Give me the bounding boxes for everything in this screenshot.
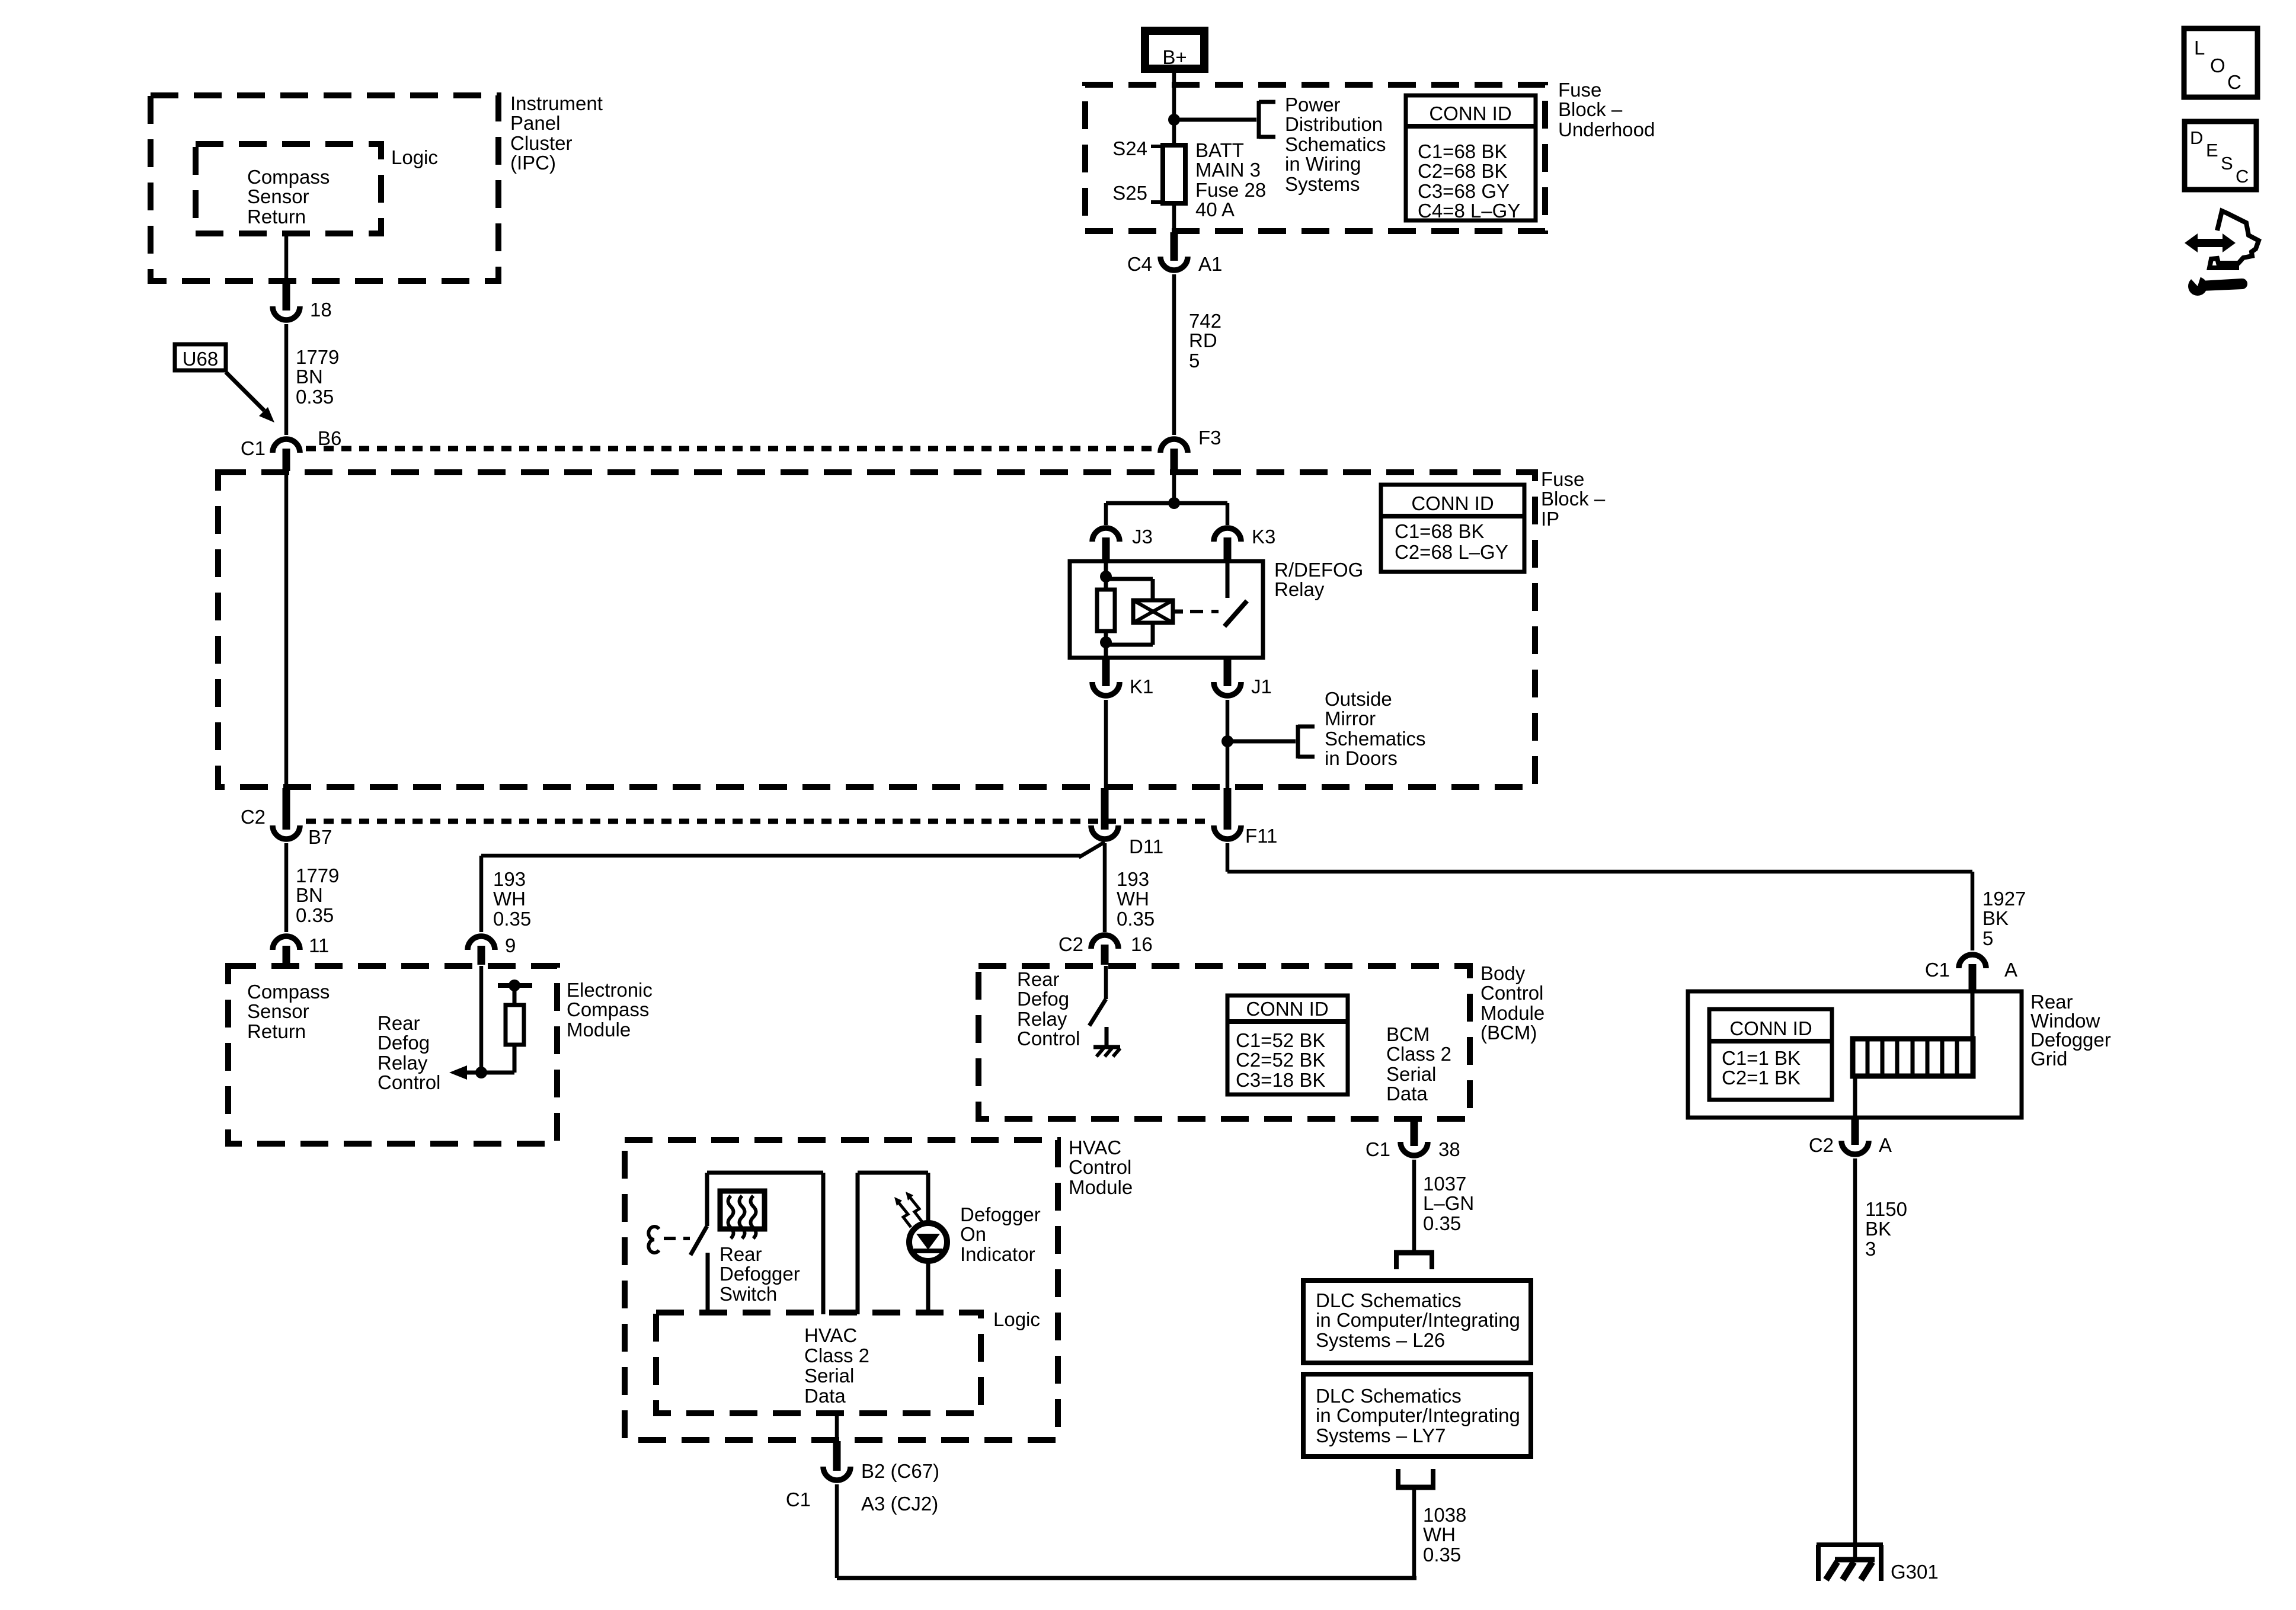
label wire 1779 BN 0.35 (lower)	[296, 865, 339, 926]
svg-text:B7: B7	[308, 826, 332, 848]
svg-text:BN: BN	[296, 884, 323, 906]
wire coil bottom to solenoid	[1106, 623, 1153, 645]
svg-text:MAIN 3: MAIN 3	[1195, 159, 1261, 181]
svg-text:IP: IP	[1541, 508, 1559, 530]
svg-text:1927: 1927	[1982, 888, 2026, 910]
svg-text:Grid: Grid	[2030, 1048, 2067, 1070]
label wire 1038 WH 0.35	[1423, 1504, 1466, 1566]
connector pin 11 (compass module)	[273, 934, 329, 965]
box Fuse Block - IP, dashed	[218, 472, 1535, 787]
svg-text:0.35: 0.35	[1423, 1212, 1461, 1234]
label HVAC Class 2 Serial Data	[804, 1324, 869, 1407]
label Electronic Compass Module	[567, 979, 653, 1041]
svg-text:Data: Data	[804, 1385, 846, 1407]
wire HVAC switch loop top	[707, 1173, 823, 1314]
svg-text:Relay: Relay	[378, 1052, 428, 1074]
wire coil bottom	[1104, 631, 1108, 658]
solenoid actuator dashes	[1173, 610, 1219, 614]
svg-text:(BCM): (BCM)	[1480, 1022, 1537, 1044]
svg-text:C2: C2	[1809, 1134, 1834, 1156]
resistor relay coil	[1097, 590, 1115, 631]
svg-text:Sensor: Sensor	[247, 1000, 309, 1022]
svg-text:Return: Return	[247, 1020, 306, 1042]
box Instrument Panel Cluster (IPC), dashed	[151, 95, 498, 281]
svg-text:Schematics: Schematics	[1325, 728, 1426, 750]
LED light rays	[894, 1192, 922, 1227]
svg-text:F11: F11	[1245, 825, 1277, 847]
svg-text:Systems: Systems	[1285, 173, 1360, 195]
svg-text:CONN ID: CONN ID	[1429, 103, 1511, 124]
svg-text:Class 2: Class 2	[1386, 1043, 1451, 1065]
svg-text:Module: Module	[1069, 1176, 1133, 1198]
svg-text:Module: Module	[567, 1019, 631, 1041]
relay switch blade	[1224, 601, 1247, 626]
svg-text:C3=18 BK: C3=18 BK	[1236, 1069, 1325, 1091]
junction dot compass module	[475, 1067, 487, 1078]
svg-text:C2=52 BK: C2=52 BK	[1236, 1049, 1325, 1071]
svg-text:Serial: Serial	[804, 1365, 854, 1387]
svg-text:16: 16	[1131, 933, 1153, 955]
svg-text:Systems – LY7: Systems – LY7	[1316, 1425, 1446, 1446]
connector pin 9 (compass module)	[468, 934, 516, 965]
svg-text:0.35: 0.35	[1117, 908, 1155, 930]
LED Defogger On Indicator	[909, 1223, 947, 1261]
svg-text:BCM: BCM	[1386, 1023, 1430, 1045]
svg-text:Systems – L26: Systems – L26	[1316, 1329, 1445, 1351]
svg-text:Cluster: Cluster	[510, 132, 573, 154]
connector C1 B6 (IPC to IP fuse block)	[241, 427, 342, 471]
svg-text:1779: 1779	[296, 865, 339, 886]
svg-text:C3=68 GY: C3=68 GY	[1418, 180, 1510, 202]
svg-text:DLC Schematics: DLC Schematics	[1316, 1385, 1462, 1407]
relay switch contact from K3	[1226, 561, 1230, 598]
svg-text:Sensor: Sensor	[247, 185, 309, 207]
box Rear Window Defogger Grid	[1688, 991, 2022, 1118]
fuse BATT MAIN 3 Fuse 28 40A	[1163, 145, 1185, 203]
wire junction to resistor bottom	[481, 1045, 514, 1073]
svg-text:C1: C1	[1925, 959, 1950, 981]
connector C2 B7	[241, 788, 332, 848]
svg-text:Block –: Block –	[1558, 98, 1623, 120]
dotted connector row C1/B6 to F3	[306, 446, 1156, 452]
wire bottom serial data link	[837, 1576, 1416, 1580]
wire BCM switch top	[1104, 966, 1108, 999]
wire resistor top to node bar	[513, 984, 517, 1005]
callout U68 box with arrow	[175, 344, 274, 422]
label Rear Defog Relay Control (module)	[378, 1012, 440, 1093]
svg-text:B+: B+	[1162, 46, 1187, 68]
svg-text:Compass: Compass	[247, 166, 330, 188]
svg-text:40 A: 40 A	[1195, 199, 1235, 220]
svg-text:Defog: Defog	[1017, 988, 1069, 1010]
svg-text:Outside: Outside	[1325, 688, 1392, 710]
dotted connector row C2/B7 to F11	[306, 819, 1211, 824]
connector K3	[1214, 526, 1275, 560]
svg-text:Return: Return	[247, 206, 306, 228]
label BCM Class 2 Serial Data	[1386, 1023, 1451, 1105]
svg-text:9: 9	[505, 934, 516, 956]
label S25	[1112, 182, 1147, 204]
svg-text:(IPC): (IPC)	[510, 152, 556, 174]
label Defogger On Indicator	[960, 1204, 1041, 1265]
svg-text:L–GN: L–GN	[1423, 1192, 1474, 1214]
svg-text:J3: J3	[1132, 526, 1153, 548]
svg-text:WH: WH	[1423, 1523, 1456, 1545]
connector C2 16 (BCM)	[1059, 933, 1153, 965]
label Compass Sensor Return (module)	[247, 981, 330, 1042]
svg-text:in Computer/Integrating: in Computer/Integrating	[1316, 1309, 1520, 1331]
svg-text:Relay: Relay	[1017, 1008, 1067, 1030]
table CONN ID (BCM)	[1227, 996, 1348, 1094]
connector C1 B2/A3 (HVAC)	[786, 1441, 939, 1515]
svg-text:Compass: Compass	[567, 998, 649, 1020]
HVAC switch blade	[690, 1226, 707, 1255]
svg-text:C1: C1	[1366, 1138, 1390, 1160]
svg-text:B2 (C67): B2 (C67)	[861, 1460, 939, 1482]
junction dot coil bottom	[1100, 636, 1112, 648]
label wire 1150 BK 3	[1865, 1198, 1907, 1260]
svg-text:C2=68 L–GY: C2=68 L–GY	[1395, 541, 1508, 563]
label Fuse Block - IP	[1541, 468, 1606, 530]
connector F3	[1160, 427, 1221, 471]
arrow Rear Defog Relay Control	[449, 1065, 481, 1080]
connector C2 A (grid)	[1809, 1119, 1892, 1156]
ground G301	[1817, 1545, 1939, 1583]
relay solenoid with X	[1133, 600, 1173, 623]
label wire 742 RD 5	[1189, 310, 1221, 372]
svg-text:in Computer/Integrating: in Computer/Integrating	[1316, 1404, 1520, 1426]
svg-text:D: D	[2190, 127, 2203, 148]
icon component locator (arrow and outline)	[2185, 211, 2259, 268]
junction dot outside mirror branch	[1221, 735, 1233, 747]
svg-text:U68: U68	[183, 348, 219, 370]
svg-text:Rear: Rear	[378, 1012, 420, 1034]
svg-text:C: C	[2236, 166, 2249, 187]
label R/DEFOG Relay	[1274, 559, 1363, 600]
svg-text:DLC Schematics: DLC Schematics	[1316, 1289, 1462, 1311]
svg-text:C4=8 L–GY: C4=8 L–GY	[1418, 200, 1520, 222]
svg-text:0.35: 0.35	[296, 386, 334, 408]
label HVAC Control Module	[1069, 1137, 1133, 1198]
svg-text:HVAC: HVAC	[804, 1324, 857, 1346]
svg-text:38: 38	[1438, 1138, 1460, 1160]
svg-text:Rear: Rear	[1017, 968, 1060, 990]
svg-text:Distribution: Distribution	[1285, 113, 1383, 135]
svg-text:C1: C1	[241, 437, 266, 459]
svg-text:Block –: Block –	[1541, 488, 1606, 510]
svg-text:1150: 1150	[1865, 1198, 1907, 1220]
resistor R in compass module	[506, 1005, 524, 1045]
bracket power distribution	[1259, 101, 1275, 139]
wire 1779 BN 0.35 (pin18 to C1-B6)	[284, 324, 289, 435]
wire B+ down to fuse	[1172, 73, 1176, 146]
terminal B+ box	[1145, 31, 1204, 69]
svg-text:3: 3	[1865, 1238, 1876, 1260]
svg-text:C4: C4	[1127, 253, 1152, 275]
svg-text:Power: Power	[1285, 94, 1341, 116]
svg-text:CONN ID: CONN ID	[1411, 492, 1494, 514]
wire 1779 BN 0.35 (C2-B7 to pin 11)	[284, 843, 289, 932]
svg-text:1779: 1779	[296, 346, 339, 368]
svg-text:C2=1 BK: C2=1 BK	[1722, 1067, 1801, 1089]
svg-text:Defogger: Defogger	[720, 1263, 800, 1285]
svg-text:0.35: 0.35	[1423, 1544, 1461, 1566]
svg-text:BN: BN	[296, 366, 323, 388]
svg-text:A1: A1	[1198, 253, 1222, 275]
wire relay coil top	[1104, 561, 1108, 590]
wire bus down to K3	[1226, 503, 1230, 525]
svg-text:742: 742	[1189, 310, 1221, 332]
svg-text:C1=68 BK: C1=68 BK	[1395, 520, 1484, 542]
svg-text:11: 11	[309, 934, 329, 956]
connector C1 A (grid)	[1925, 955, 2017, 990]
wire fuse to C4	[1172, 203, 1176, 233]
wire HVAC C1 down	[835, 1484, 839, 1578]
svg-text:Fuse: Fuse	[1558, 79, 1601, 101]
wire 1927 BK 5 (F11 to grid C1)	[1227, 843, 1972, 950]
svg-text:C2: C2	[1059, 933, 1083, 955]
svg-text:S: S	[2221, 153, 2233, 174]
wire bus down to J3	[1104, 503, 1108, 525]
svg-text:1037: 1037	[1423, 1173, 1466, 1195]
svg-text:CONN ID: CONN ID	[1729, 1017, 1812, 1039]
svg-text:Control: Control	[1017, 1028, 1080, 1049]
label S24	[1112, 137, 1147, 159]
svg-text:C1=52 BK: C1=52 BK	[1236, 1029, 1325, 1051]
wire 1038 WH 0.35	[1412, 1487, 1416, 1578]
svg-text:G301: G301	[1891, 1561, 1939, 1583]
wire LED branch	[858, 1173, 928, 1314]
label Outside Mirror Schematics in Doors	[1325, 688, 1426, 769]
label DLC Schematics LY7	[1316, 1385, 1520, 1446]
box DLC Schematics L26	[1303, 1281, 1531, 1363]
svg-text:Class 2: Class 2	[804, 1345, 869, 1366]
wire compass return through IP fuse block	[284, 472, 289, 788]
svg-text:Fuse 28: Fuse 28	[1195, 179, 1266, 201]
svg-text:Instrument: Instrument	[510, 92, 603, 114]
splice tick S24	[1151, 145, 1163, 148]
svg-text:C2: C2	[241, 806, 266, 828]
connector J3	[1092, 526, 1153, 560]
svg-text:F3: F3	[1198, 427, 1221, 449]
svg-text:0.35: 0.35	[296, 904, 334, 926]
wire grid C1 internal	[1971, 990, 1975, 1041]
table CONN ID (grid)	[1709, 1009, 1832, 1100]
svg-text:18: 18	[310, 299, 332, 321]
svg-text:HVAC: HVAC	[1069, 1137, 1121, 1158]
svg-text:S25: S25	[1112, 182, 1147, 204]
svg-text:K3: K3	[1252, 526, 1275, 548]
connector D11	[1091, 788, 1163, 857]
icon LOC box	[2184, 28, 2257, 97]
BCM switch blade	[1089, 999, 1106, 1026]
svg-text:Mirror: Mirror	[1325, 708, 1376, 729]
svg-text:193: 193	[493, 868, 526, 890]
svg-text:in Wiring: in Wiring	[1285, 153, 1361, 175]
svg-text:C1=68 BK: C1=68 BK	[1418, 140, 1507, 162]
svg-text:Relay: Relay	[1274, 578, 1325, 600]
svg-text:A3 (CJ2): A3 (CJ2)	[861, 1493, 938, 1515]
connector F11	[1214, 788, 1277, 847]
svg-text:193: 193	[1117, 868, 1149, 890]
svg-text:D11: D11	[1129, 836, 1163, 857]
svg-text:Fuse: Fuse	[1541, 468, 1584, 490]
junction dot coil top	[1100, 571, 1112, 582]
wire F3 into IP block	[1172, 471, 1176, 503]
svg-text:Underhood: Underhood	[1558, 119, 1655, 140]
svg-text:Indicator: Indicator	[960, 1243, 1035, 1265]
connector C4 A1	[1127, 232, 1223, 275]
label Body Control Module (BCM)	[1480, 962, 1544, 1044]
label Power Distribution Schematics in Wiring Systems	[1285, 94, 1386, 195]
junction dot below B+	[1168, 114, 1180, 126]
label wire 1927 BK 5	[1982, 888, 2026, 949]
svg-text:0.35: 0.35	[493, 908, 531, 930]
label Instrument Panel Cluster (IPC)	[510, 92, 603, 174]
HVAC switch bottom contact	[706, 1253, 710, 1314]
off-page cap to DLC L26	[1394, 1253, 1434, 1269]
wire relay feed bus	[1106, 501, 1227, 505]
svg-text:C1: C1	[786, 1489, 811, 1510]
svg-text:Control: Control	[1480, 982, 1543, 1004]
BCM switch contact with hatch	[1093, 1027, 1120, 1057]
wire pin9 down inside compass module	[479, 966, 484, 1073]
svg-text:Electronic: Electronic	[567, 979, 653, 1001]
svg-text:CONN ID: CONN ID	[1246, 998, 1328, 1020]
icon wrench	[2185, 267, 2247, 296]
table CONN ID (Fuse Block IP)	[1381, 485, 1524, 572]
svg-text:A: A	[2004, 959, 2017, 981]
label Rear Window Defogger Grid	[2030, 991, 2111, 1070]
label Rear Defog Relay Control (BCM)	[1017, 968, 1080, 1049]
icon DESC box	[2185, 121, 2256, 190]
wire compass sensor return, IPC internal	[284, 233, 289, 282]
defogger grid element	[1853, 1039, 1973, 1076]
box HVAC Control Module, dashed	[625, 1140, 1058, 1440]
svg-text:BATT: BATT	[1195, 139, 1244, 161]
HVAC switch button symbol	[648, 1227, 659, 1253]
svg-text:Rear: Rear	[720, 1243, 762, 1265]
svg-text:Control: Control	[1069, 1156, 1131, 1178]
svg-text:R/DEFOG: R/DEFOG	[1274, 559, 1363, 581]
splice tick S25	[1151, 200, 1163, 204]
svg-text:Logic: Logic	[391, 146, 438, 168]
heated grid icon	[720, 1191, 765, 1238]
wire J1 down to F11	[1226, 700, 1230, 789]
svg-text:WH: WH	[493, 888, 526, 910]
svg-text:Panel: Panel	[510, 112, 560, 134]
svg-text:Module: Module	[1480, 1002, 1544, 1024]
wire horizontal 193 WH to D11	[481, 842, 1105, 857]
svg-text:5: 5	[1189, 350, 1200, 372]
svg-text:Defog: Defog	[378, 1032, 430, 1054]
svg-text:Serial: Serial	[1386, 1063, 1436, 1085]
svg-text:C: C	[2227, 71, 2241, 93]
wire 193 WH 0.35 (pin9 up to corner)	[479, 856, 484, 932]
label wire 193 WH 0.35 (left)	[493, 868, 531, 930]
wire grid to C2	[1853, 1076, 1857, 1120]
svg-text:O: O	[2210, 55, 2225, 76]
svg-text:K1: K1	[1130, 676, 1153, 697]
connector pin 18 (IPC C?)	[273, 282, 332, 321]
svg-text:RD: RD	[1189, 329, 1217, 351]
svg-text:E: E	[2206, 140, 2218, 161]
label wire 1779 BN 0.35 (upper)	[296, 346, 339, 408]
wire 193 WH 0.35 (D11 to C2-16)	[1103, 843, 1107, 932]
label Rear Defogger Switch	[720, 1243, 800, 1305]
label BATT MAIN 3 Fuse 28 40 A	[1195, 139, 1266, 220]
svg-text:Logic: Logic	[993, 1308, 1040, 1330]
box Logic (IPC internal), dashed	[196, 144, 381, 233]
svg-text:Data: Data	[1386, 1083, 1428, 1105]
svg-text:Schematics: Schematics	[1285, 133, 1386, 155]
svg-text:1038: 1038	[1423, 1504, 1466, 1526]
HVAC switch linkage dashes	[664, 1237, 690, 1240]
label Logic (IPC)	[391, 146, 438, 168]
wire branch to outside mirror bracket	[1227, 740, 1296, 744]
wire K1 down to D11	[1104, 700, 1108, 789]
label Compass Sensor Return (IPC)	[247, 166, 330, 228]
svg-text:L: L	[2194, 37, 2205, 59]
off-page cup from DLC LY7	[1396, 1469, 1435, 1487]
label Fuse Block - Underhood	[1558, 79, 1655, 140]
label Logic (HVAC)	[993, 1308, 1040, 1330]
box DLC Schematics LY7	[1303, 1374, 1531, 1457]
svg-text:BK: BK	[1982, 907, 2009, 929]
wire 742 RD 5	[1172, 274, 1176, 435]
svg-text:J1: J1	[1251, 676, 1272, 697]
svg-text:C2=68 BK: C2=68 BK	[1418, 160, 1507, 182]
wire 1150 BK 3	[1853, 1158, 1857, 1560]
svg-text:Control: Control	[378, 1071, 440, 1093]
svg-text:A: A	[1879, 1134, 1892, 1156]
bracket outside mirror	[1298, 725, 1315, 758]
svg-text:Switch: Switch	[720, 1283, 777, 1305]
svg-text:B6: B6	[318, 427, 341, 449]
wire LED bottom	[926, 1260, 930, 1314]
svg-text:S24: S24	[1112, 137, 1147, 159]
label DLC Schematics L26	[1316, 1289, 1520, 1351]
svg-text:in Doors: in Doors	[1325, 747, 1398, 769]
box Body Control Module (BCM), dashed	[978, 966, 1470, 1119]
table CONN ID (Fuse Block Underhood)	[1406, 95, 1536, 222]
box Fuse Block - Underhood, dashed	[1085, 85, 1545, 231]
wire logic to C1 connector	[835, 1413, 839, 1442]
svg-text:Compass: Compass	[247, 981, 330, 1003]
connector J1	[1214, 659, 1272, 697]
svg-text:On: On	[960, 1223, 986, 1245]
svg-text:BK: BK	[1865, 1218, 1891, 1240]
wire branch to power distribution bracket	[1174, 118, 1256, 122]
label wire 193 WH 0.35 (right)	[1117, 868, 1155, 930]
svg-text:WH: WH	[1117, 888, 1149, 910]
wire coil top to solenoid	[1106, 579, 1153, 600]
svg-text:Defogger: Defogger	[960, 1204, 1041, 1225]
svg-text:5: 5	[1982, 927, 1993, 949]
box Logic (HVAC), dashed	[656, 1313, 981, 1413]
connector K1	[1092, 659, 1153, 697]
box Electronic Compass Module, dashed	[228, 966, 557, 1144]
connector C1 38 (BCM)	[1366, 1120, 1460, 1160]
wire 1037 L-GN 0.35	[1412, 1160, 1416, 1250]
node bar with junction dot	[498, 980, 532, 991]
junction dot relay bus	[1168, 497, 1180, 509]
box R/DEFOG Relay	[1070, 561, 1263, 658]
label wire 1037 L-GN 0.35	[1423, 1173, 1474, 1234]
svg-text:C1=1 BK: C1=1 BK	[1722, 1047, 1801, 1069]
svg-text:Body: Body	[1480, 962, 1526, 984]
